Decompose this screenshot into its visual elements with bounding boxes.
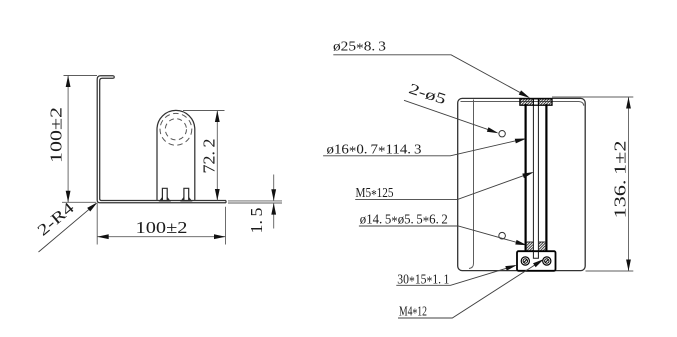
node: bottom clamp block 30*15 [517, 251, 556, 271]
wire: bracket flange outline (vertical leg with top lip) [97, 76, 226, 203]
svg-text:M5*125: M5*125 [356, 186, 394, 203]
svg-text:ø14. 5*ø5. 5*6. 2: ø14. 5*ø5. 5*6. 2 [360, 212, 448, 229]
svg-text:72. 2: 72. 2 [200, 139, 219, 174]
node: plate hole circle top (2-ø5) [499, 131, 505, 137]
svg-text:30*15*1. 1: 30*15*1. 1 [397, 272, 449, 289]
wire: plate inner fold line vertical [469, 100, 474, 269]
node: screw left M4 [521, 257, 529, 265]
node: tube bottom hatched section ø14.5 [527, 242, 546, 251]
dimension 1.5 thickness [228, 175, 282, 229]
node: plate hole circle bottom (2-ø5) [499, 232, 506, 239]
label 2-R4 with leader [39, 204, 96, 252]
node: screw right M4 [543, 257, 551, 265]
svg-text:100±2: 100±2 [136, 218, 188, 237]
node: weld stud left [159, 188, 171, 201]
svg-text:1. 5: 1. 5 [247, 208, 266, 234]
svg-text:100±2: 100±2 [47, 107, 66, 163]
svg-text:136. 1±2: 136. 1±2 [611, 141, 630, 219]
dimension 100±2 horizontal bottom [97, 203, 225, 245]
node: ring bracket (lollipop) outline [157, 110, 195, 200]
dimension 136.1±2 vertical right [552, 97, 633, 271]
node: dashed circle outer [160, 113, 192, 145]
dimension 72.2 vertical [183, 110, 225, 200]
node: top cap block ø25 hatched [520, 99, 552, 105]
node: antenna tube outer lines [524, 104, 526, 252]
svg-text:ø25*8. 3: ø25*8. 3 [333, 40, 386, 57]
svg-text:ø16*0. 7*114. 3: ø16*0. 7*114. 3 [327, 142, 422, 159]
node: rod slot in clamp [533, 251, 538, 258]
wire: plate inner fold line horizontal top [461, 102, 584, 106]
node: dashed circle inner [165, 119, 186, 140]
dimension 100±2 vertical left [62, 76, 97, 203]
svg-text:M4*12: M4*12 [399, 305, 427, 322]
node: mounting plate (side view, rounded rect) [458, 98, 586, 270]
node: weld stud right [180, 188, 192, 201]
node: threaded rod inner lines M5 [532, 99, 534, 258]
